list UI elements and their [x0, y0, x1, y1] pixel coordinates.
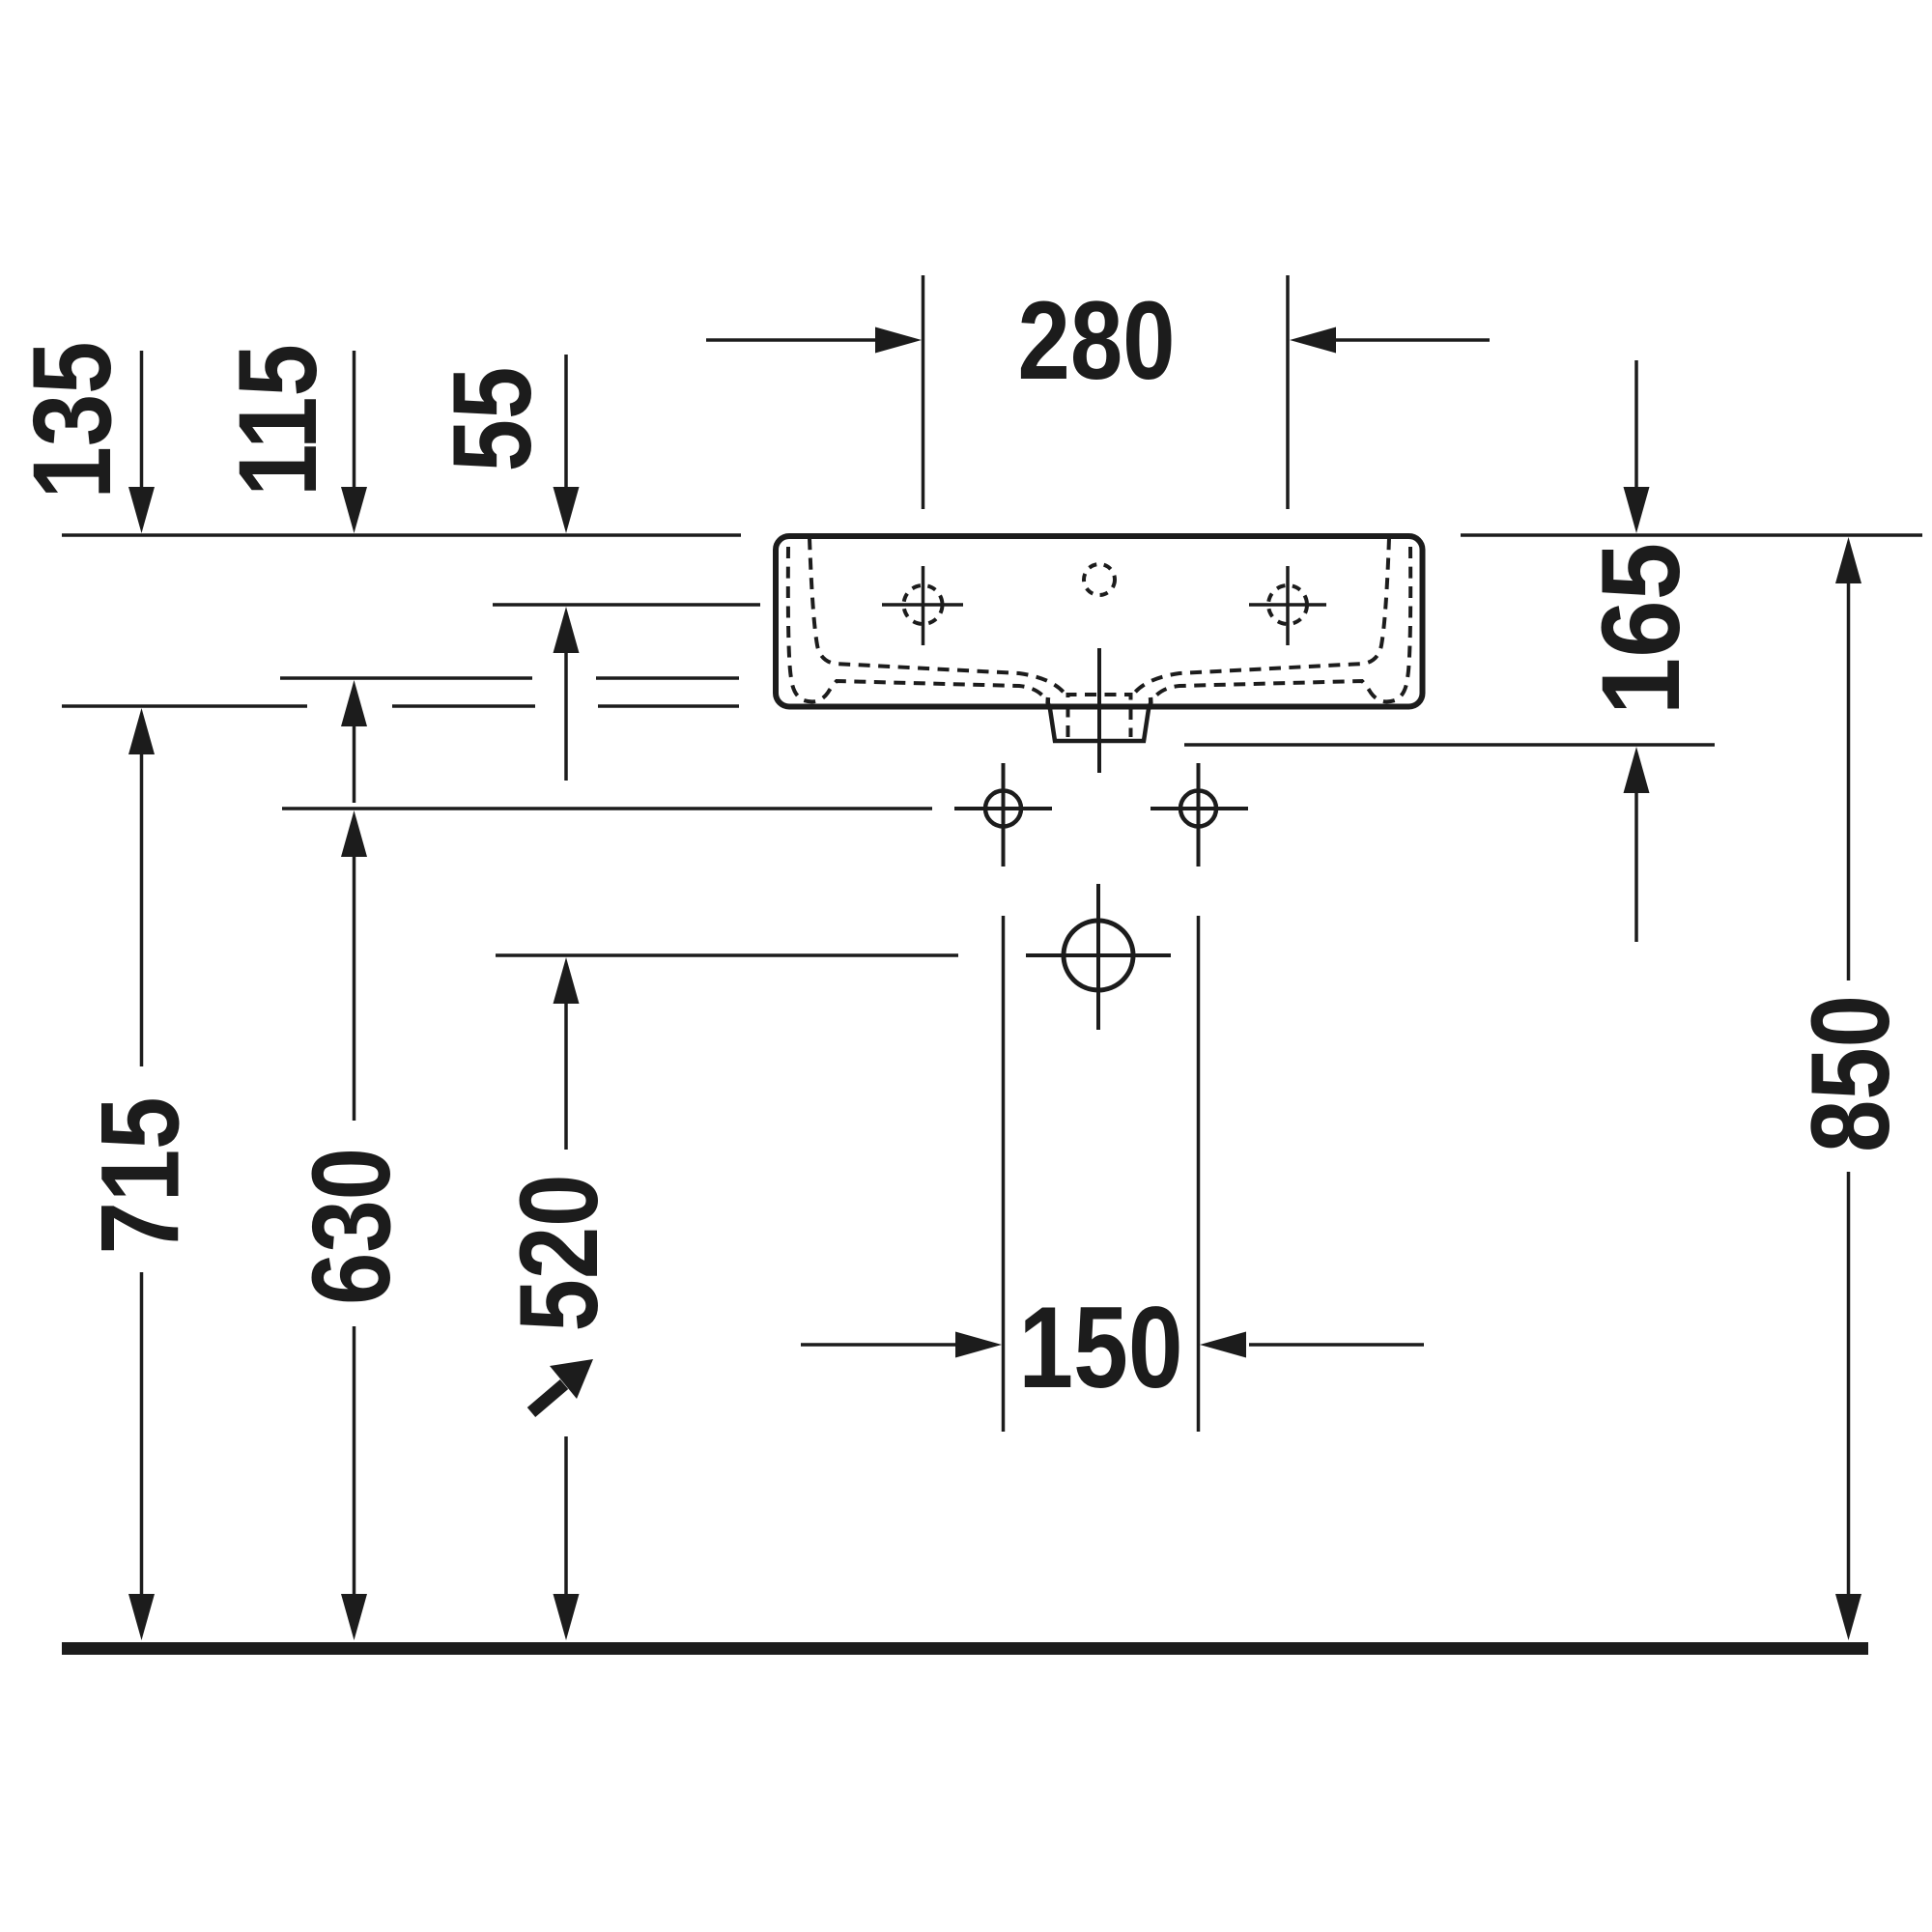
wall top line left segment	[62, 533, 741, 537]
drain centre line	[1097, 648, 1101, 773]
dim 520 arrow up to drain pipe level	[554, 957, 580, 1004]
dim 630 shaft + arrow down to floor	[353, 1326, 356, 1598]
svg-text:135: 135	[10, 341, 134, 498]
dim 165 arrow down to wall line	[1634, 360, 1638, 491]
svg-text:850: 850	[1787, 995, 1912, 1152]
basin outline	[776, 536, 1423, 707]
mounting hole right	[1180, 791, 1216, 827]
svg-text:715: 715	[77, 1096, 202, 1254]
level line 115 (bowl depth)	[280, 676, 532, 680]
faucet hole centre	[1084, 564, 1115, 595]
svg-text:115: 115	[214, 344, 339, 497]
dim 115 arrow up to bowl depth level	[341, 680, 367, 726]
dim 850 arrow up to wall line	[1835, 537, 1861, 583]
dim 150 arrow left	[801, 1343, 956, 1347]
svg-text:55: 55	[429, 367, 554, 472]
level line 55 (overflow level)	[493, 603, 760, 607]
dim 630 arrow up to mounting hole level	[341, 810, 367, 857]
dim 150 extension line left	[1002, 916, 1006, 1432]
dim 115 arrow down to wall line	[353, 351, 356, 491]
dim 55 arrow up to overflow level	[554, 607, 580, 653]
leader arrow north-east	[531, 1384, 564, 1412]
mounting hole left	[985, 791, 1021, 827]
dim 150 extension line right	[1197, 916, 1201, 1432]
svg-text:150: 150	[1018, 1282, 1182, 1412]
dim 280 extension line left	[922, 275, 925, 509]
dim 280 arrow right	[1290, 327, 1336, 354]
level line 520 (drain pipe)	[496, 953, 958, 957]
floor line	[62, 1642, 1868, 1655]
basin inner bowl dashed outline left	[788, 547, 1049, 705]
svg-text:165: 165	[1577, 543, 1702, 715]
drain pipe circle	[1064, 921, 1133, 990]
dim 135 arrow down to wall line	[140, 351, 144, 491]
dim 55 arrow down to wall line	[564, 355, 568, 491]
svg-text:280: 280	[1017, 277, 1175, 402]
level line 135 (basin bottom extension)	[62, 704, 307, 708]
dim 715 shaft + arrow down to floor	[140, 1272, 144, 1598]
dim 165 arrow up to siphon bottom level	[1624, 747, 1650, 793]
dim 135/715 arrow up to basin bottom level	[128, 708, 155, 754]
dim 280 arrow left	[706, 338, 877, 342]
drain cutout solid outline	[1048, 697, 1151, 741]
faucet hole right	[1268, 585, 1307, 624]
wall top line right segment	[1461, 533, 1922, 537]
level line 165 (siphon bottom)	[1184, 743, 1715, 747]
basin inner bowl dashed outline right	[1150, 547, 1410, 705]
drain cutout dashed inner	[1068, 695, 1131, 737]
svg-text:520: 520	[496, 1174, 620, 1331]
svg-text:630: 630	[288, 1148, 412, 1305]
dim 150 arrow right	[1200, 1332, 1246, 1358]
dim 850 shaft + arrow down to floor	[1847, 1172, 1851, 1598]
dim 280 extension line right	[1286, 275, 1290, 509]
level line 630 (mounting holes)	[282, 807, 932, 810]
dim 520 shaft + arrow down to floor	[564, 1436, 568, 1598]
faucet hole left	[904, 585, 943, 624]
